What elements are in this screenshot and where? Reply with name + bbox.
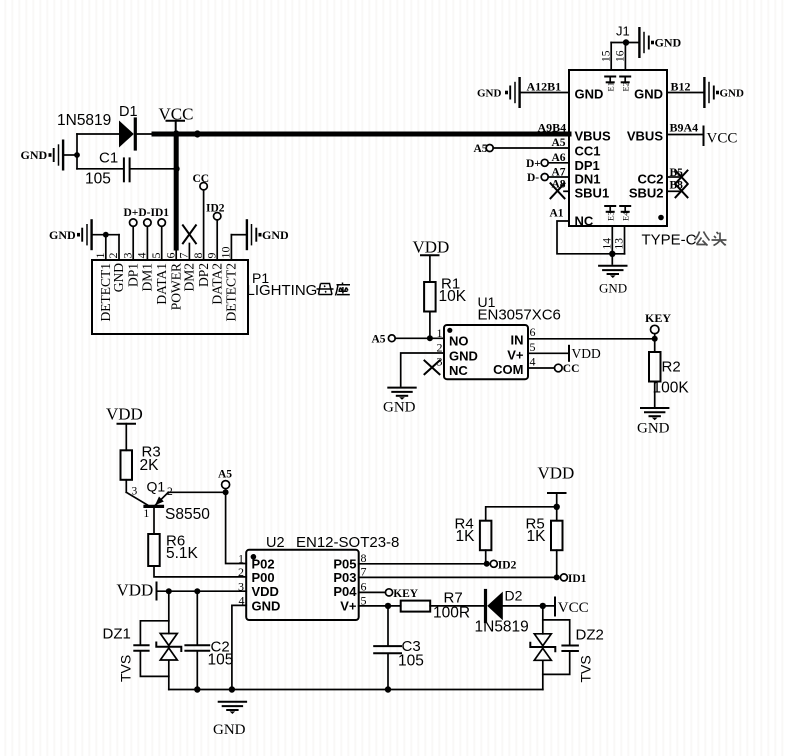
wire B12 — [667, 92, 703, 94]
svg-text:105: 105 — [398, 653, 424, 670]
svg-text:VBUS: VBUS — [575, 129, 611, 144]
wire POWER feed (thick) — [174, 134, 179, 248]
capacitor plates of DZ2 branch — [562, 646, 578, 652]
U1 pin numbers — [437, 325, 536, 368]
node junction — [194, 588, 200, 594]
svg-text:NC: NC — [575, 214, 594, 229]
svg-text:KEY: KEY — [645, 311, 671, 325]
wire DZ2 column top — [542, 606, 544, 634]
svg-text:Q1: Q1 — [147, 479, 166, 495]
wire R6 to U2 pin2 — [154, 566, 246, 577]
svg-text:A5: A5 — [372, 334, 386, 346]
wire pin13 — [624, 226, 626, 254]
svg-text:B9A4: B9A4 — [670, 121, 699, 135]
port circle ID2 pin9 — [214, 213, 221, 220]
wire DZ1 cap bracket — [140, 621, 168, 677]
wire — [76, 134, 78, 169]
wire U1 pin6 IN — [528, 338, 655, 340]
svg-text:C1: C1 — [99, 149, 118, 166]
svg-text:DP1: DP1 — [125, 263, 140, 287]
wire U2 pin5 — [359, 605, 401, 607]
no-connect X B5 — [676, 171, 688, 184]
wire U2 pin6 — [359, 591, 386, 593]
resistor R4 — [480, 521, 492, 551]
port circle CC — [555, 364, 563, 372]
svg-text:CC1: CC1 — [575, 144, 601, 159]
svg-text:ID2: ID2 — [498, 559, 517, 571]
ground GND top-left — [21, 140, 64, 171]
wire R4 down — [485, 550, 487, 564]
node junction — [223, 489, 229, 495]
svg-text:GND: GND — [477, 88, 502, 100]
power flag VDD above R4 R5 — [538, 464, 575, 521]
wire CC2 stub — [667, 176, 679, 178]
svg-text:VDD: VDD — [413, 238, 450, 257]
svg-text:10: 10 — [219, 247, 233, 259]
node junction — [74, 152, 80, 158]
wire U1 pin5 — [528, 352, 569, 354]
ground GND at B12 — [704, 77, 744, 108]
svg-text:P00: P00 — [252, 570, 275, 585]
svg-text:4: 4 — [530, 355, 536, 369]
wire to earth — [611, 254, 613, 264]
svg-text:1: 1 — [238, 552, 244, 566]
port circle pin4 — [144, 219, 151, 226]
ground earth U1 pin2 — [388, 388, 415, 400]
node junction — [554, 504, 560, 510]
wire — [77, 133, 119, 135]
wire U1 pin4 — [528, 367, 555, 369]
no-connect X U1 pin3 — [425, 361, 440, 375]
resistor R3 — [121, 450, 133, 480]
svg-text:D+: D+ — [526, 158, 541, 170]
wire pin14 — [611, 226, 613, 254]
node junction — [385, 686, 391, 692]
P1 pin numbers 1-10 — [93, 247, 233, 259]
svg-text:6: 6 — [530, 325, 536, 339]
svg-text:B12: B12 — [671, 79, 691, 93]
svg-text:7: 7 — [177, 253, 191, 259]
wire pin10 — [230, 235, 232, 260]
wire pin16 — [624, 43, 626, 71]
svg-text:COM: COM — [493, 362, 523, 377]
power flag VCC at D2 — [555, 598, 589, 617]
svg-text:VDD: VDD — [572, 346, 601, 361]
wire — [654, 382, 656, 407]
svg-text:A7: A7 — [552, 167, 566, 179]
svg-text:3: 3 — [120, 253, 134, 259]
svg-text:GND: GND — [21, 148, 48, 162]
svg-text:E3: E3 — [605, 212, 615, 221]
svg-text:TVS: TVS — [118, 655, 134, 682]
pin numbers 15 16 — [600, 50, 626, 62]
svg-text:4: 4 — [135, 253, 149, 259]
port circle KEY — [385, 589, 392, 596]
J1 pin names — [575, 87, 664, 229]
wire pin2 — [118, 235, 120, 260]
capacitor C2 — [185, 591, 233, 689]
wire U2 pin4 GND — [232, 605, 246, 689]
node junction — [194, 686, 200, 692]
wire — [667, 134, 704, 136]
wire — [137, 133, 154, 135]
svg-text:E2: E2 — [620, 82, 630, 91]
svg-text:1N5819: 1N5819 — [475, 619, 529, 636]
ground earth below U2 — [219, 702, 246, 714]
svg-text:GND: GND — [383, 400, 416, 416]
capacitor C1 — [77, 149, 174, 187]
svg-text:DZ1: DZ1 — [103, 626, 131, 643]
svg-text:A5: A5 — [218, 469, 232, 481]
svg-text:VDD: VDD — [538, 464, 575, 483]
IC U1 body — [444, 325, 528, 379]
svg-text:D-: D- — [527, 172, 539, 184]
wire VBUS bus (thick) — [154, 132, 569, 137]
wire U2 pin7 to ID1 — [359, 576, 557, 578]
svg-text:P04: P04 — [333, 584, 357, 599]
U2 pin-1 dot — [251, 554, 257, 560]
svg-text:16: 16 — [615, 50, 627, 62]
svg-text:1: 1 — [93, 253, 107, 259]
node junction — [385, 603, 391, 609]
capacitor C3 — [374, 606, 424, 690]
wire pin1 — [105, 235, 107, 260]
diode D2 1N5819 — [475, 588, 529, 636]
wire DZ1 column bottom — [168, 661, 170, 690]
svg-text:LIGHTING: LIGHTING — [247, 282, 318, 299]
no-connect X B8 — [676, 184, 688, 197]
resistor R6 — [148, 534, 160, 566]
wire — [93, 234, 119, 236]
svg-text:E1: E1 — [605, 82, 615, 91]
node junction — [652, 336, 658, 342]
node junction — [174, 166, 180, 172]
connector P1 body — [92, 260, 248, 334]
svg-text:NC: NC — [449, 363, 468, 378]
svg-text:CC2: CC2 — [637, 172, 663, 187]
svg-text:GND: GND — [575, 87, 604, 102]
svg-text:1K: 1K — [527, 528, 547, 545]
svg-text:1K: 1K — [456, 528, 476, 545]
svg-text:GND: GND — [111, 263, 126, 292]
svg-text:A9B4: A9B4 — [538, 121, 567, 135]
svg-text:VDD: VDD — [106, 405, 143, 424]
no-connect X pin7 — [183, 225, 196, 243]
node junction — [427, 335, 433, 341]
wire VDD rail to U2 pin3 — [157, 590, 247, 592]
wire DZ2 cap bracket — [543, 620, 570, 675]
wire — [611, 42, 638, 44]
svg-text:NO: NO — [449, 334, 469, 349]
svg-text:2: 2 — [238, 565, 244, 579]
svg-text:E4: E4 — [620, 211, 630, 221]
svg-text:100R: 100R — [433, 605, 470, 622]
svg-text:D+D-ID1: D+D-ID1 — [124, 207, 170, 219]
svg-text:A12B1: A12B1 — [527, 79, 562, 93]
port circle A5 — [222, 481, 230, 489]
svg-text:DZ2: DZ2 — [576, 627, 604, 644]
node junction — [229, 686, 235, 692]
port circle ID1 — [560, 574, 567, 581]
svg-text:8: 8 — [191, 253, 205, 259]
ground earth below R2 — [641, 408, 668, 420]
svg-text:100K: 100K — [653, 380, 690, 397]
svg-text:DETECT2: DETECT2 — [224, 263, 239, 322]
node junction — [623, 39, 629, 45]
svg-text:DM2: DM2 — [182, 263, 197, 292]
power flag VCC right — [704, 127, 738, 147]
svg-text:VDD: VDD — [117, 581, 154, 600]
shield pin E3 bottom — [605, 206, 615, 221]
node junction — [554, 574, 560, 580]
wire R5 down — [556, 550, 558, 577]
U2 pin numbers — [238, 551, 367, 608]
U1 pin-1 dot — [447, 328, 452, 333]
svg-text:GND: GND — [599, 281, 627, 296]
svg-text:GND: GND — [637, 421, 670, 437]
node junction — [173, 130, 180, 137]
svg-text:D1: D1 — [119, 104, 138, 120]
svg-text:EN3057XC6: EN3057XC6 — [478, 307, 561, 324]
resistor R7 (horizontal) — [401, 601, 431, 612]
svg-text:2: 2 — [106, 253, 120, 259]
P1 pin names — [98, 263, 239, 322]
wire — [125, 480, 127, 493]
IC U2 body — [246, 550, 359, 620]
connector J1 body TYPE-C — [569, 70, 667, 226]
svg-text:V+: V+ — [507, 347, 524, 362]
wire — [503, 605, 555, 607]
svg-text:A5: A5 — [552, 137, 566, 149]
svg-text:SBU2: SBU2 — [629, 186, 664, 201]
wire — [654, 339, 656, 352]
pin-1 polarity dot — [658, 215, 664, 221]
resistor R5 — [551, 521, 563, 551]
ground GND at P1 pins 1-2 — [49, 219, 92, 250]
power flag VCC — [159, 105, 194, 132]
svg-text:3: 3 — [132, 486, 138, 498]
svg-text:1: 1 — [144, 508, 150, 520]
node junction — [484, 561, 490, 567]
svg-text:ID1: ID1 — [568, 573, 587, 585]
diode D1 — [119, 104, 138, 149]
wire — [65, 154, 78, 156]
svg-text:U2: U2 — [266, 535, 285, 551]
shield pin E1 top — [605, 77, 615, 92]
wire ground rail — [169, 689, 543, 691]
svg-text:13: 13 — [614, 238, 626, 250]
power flag VDD above R1 — [413, 238, 450, 283]
power flag VDD above R3 — [106, 405, 143, 451]
wire A12B1 — [521, 92, 569, 94]
wire DZ1 column top — [168, 591, 170, 633]
svg-text:9: 9 — [204, 253, 218, 259]
wire NC to pins 13-14 — [557, 221, 625, 254]
svg-text:105: 105 — [85, 171, 111, 188]
wire U2 pin8 to ID2 — [359, 563, 487, 565]
resistor R2 — [649, 352, 661, 382]
svg-text:6: 6 — [361, 579, 367, 593]
port circle CC pin8 — [200, 183, 207, 190]
svg-text:GND: GND — [449, 348, 478, 363]
svg-text:KEY: KEY — [393, 588, 419, 600]
node junction — [609, 251, 615, 257]
port circle KEY — [651, 325, 659, 333]
svg-text:5.1K: 5.1K — [166, 545, 199, 562]
svg-text:1N5819: 1N5819 — [57, 112, 111, 129]
svg-text:CC: CC — [563, 363, 580, 375]
wire SBU2 stub — [667, 190, 679, 192]
node junction pin1 — [103, 232, 109, 238]
svg-text:GND: GND — [720, 88, 745, 100]
svg-text:VCC: VCC — [707, 131, 738, 147]
power flag VDD at U2 pin3 — [117, 581, 157, 600]
svg-text:2K: 2K — [140, 457, 160, 474]
svg-text:TVS: TVS — [578, 655, 594, 682]
svg-text:GND: GND — [49, 228, 76, 242]
wire DZ2 column bottom — [542, 661, 544, 690]
svg-text:GND: GND — [213, 722, 246, 738]
svg-text:3: 3 — [238, 579, 244, 593]
wire pin6 — [175, 248, 177, 260]
svg-text:DM1: DM1 — [140, 263, 155, 292]
svg-text:P03: P03 — [333, 570, 356, 585]
svg-text:V+: V+ — [340, 599, 357, 614]
svg-text:5: 5 — [530, 340, 536, 354]
svg-text:SBU1: SBU1 — [575, 186, 610, 201]
svg-text:10K: 10K — [439, 288, 467, 305]
svg-text:1: 1 — [437, 326, 443, 340]
ground GND at J1 shield — [639, 27, 681, 58]
wire — [548, 176, 569, 178]
U1 pin names — [449, 333, 524, 378]
U2 pin names — [252, 556, 358, 613]
wire to R4 — [486, 507, 557, 521]
svg-text:15: 15 — [600, 50, 612, 62]
pin numbers 14 13 — [602, 238, 626, 250]
svg-text:GND: GND — [262, 228, 289, 242]
wire U1 pin2 to ground — [401, 353, 444, 386]
TVS diode DZ1 — [156, 634, 181, 661]
node junction — [166, 588, 172, 594]
svg-text:IN: IN — [511, 333, 524, 348]
svg-text:S8550: S8550 — [165, 506, 210, 523]
svg-text:DN1: DN1 — [575, 172, 601, 187]
svg-text:A6: A6 — [552, 152, 566, 164]
resistor R1 — [424, 282, 436, 312]
svg-text:R2: R2 — [662, 359, 681, 376]
node junction — [540, 603, 546, 609]
svg-text:5: 5 — [149, 253, 163, 259]
svg-text:GND: GND — [634, 87, 663, 102]
wire A5 to CC1 — [493, 147, 569, 149]
svg-text:A1: A1 — [550, 208, 564, 220]
svg-text:GND: GND — [655, 36, 682, 50]
wire — [430, 605, 484, 607]
port circle pin5 — [158, 219, 165, 226]
wire A5 down to U2 pin1 — [226, 492, 247, 563]
svg-text:EN12-SOT23-8: EN12-SOT23-8 — [296, 534, 399, 551]
svg-text:14: 14 — [602, 238, 614, 250]
port circle ID2 — [490, 560, 497, 567]
wire pin15 — [610, 43, 612, 71]
node junction — [194, 130, 201, 137]
wire — [548, 162, 569, 164]
shield pin E4 bottom — [620, 206, 630, 221]
svg-text:6: 6 — [163, 253, 177, 259]
svg-text:VDD: VDD — [252, 584, 279, 599]
svg-text:DATA2: DATA2 — [209, 263, 224, 305]
port circle pin3 — [130, 219, 137, 226]
no-connect X SBU1 — [551, 183, 565, 198]
capacitor plates of DZ1 branch — [134, 645, 148, 651]
svg-text:VCC: VCC — [558, 600, 589, 616]
svg-text:J1: J1 — [616, 24, 630, 39]
shield pin E2 top — [620, 77, 630, 92]
svg-text:8: 8 — [361, 551, 367, 565]
svg-text:TYPE-C: TYPE-C — [642, 232, 697, 249]
TVS diode DZ2 — [530, 634, 555, 661]
svg-text:GND: GND — [252, 599, 281, 614]
power flag VDD at U1 pin5 — [569, 346, 601, 361]
svg-text:105: 105 — [208, 652, 234, 669]
ground GND at A12B1 — [477, 77, 520, 108]
ground GND at P1 pin 10 — [247, 219, 289, 250]
svg-text:VBUS: VBUS — [627, 129, 663, 144]
ground earth below J1 — [599, 266, 626, 278]
wire Q1 emitter to A5 — [168, 491, 225, 493]
svg-text:D2: D2 — [505, 588, 523, 604]
wire — [395, 337, 444, 339]
svg-text:DATA1: DATA1 — [154, 263, 169, 305]
wire — [429, 312, 431, 339]
transistor Q1 S8550 PNP — [126, 479, 210, 535]
